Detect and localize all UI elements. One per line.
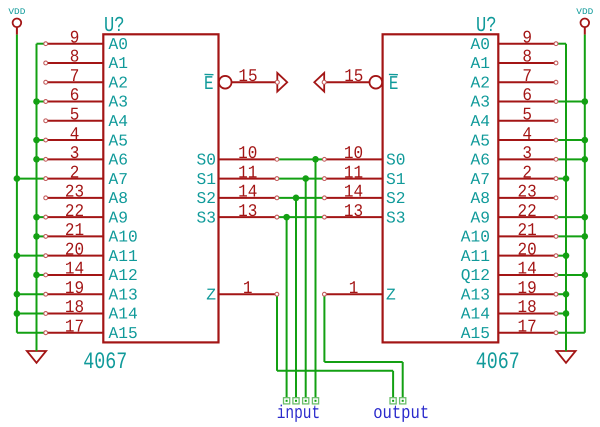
wire net S3 between chips + junction <box>277 214 325 398</box>
svg-text:1: 1 <box>243 279 253 299</box>
svg-text:5: 5 <box>70 105 80 125</box>
U1 pin 21 (A10) left <box>44 221 138 247</box>
U2 pin 13 (S3) right <box>323 202 406 228</box>
U2 pin 3 (A6) right <box>471 144 558 170</box>
U1 pin 19 (A13) left <box>44 279 138 305</box>
U1 pin 6 (A3) left <box>44 86 128 112</box>
U2 pin 20 (A11) right <box>461 240 558 266</box>
U2 pin 15 (E enable, inverted) right <box>324 67 398 95</box>
U2 pin 2 (A7) right <box>471 163 558 189</box>
svg-text:A15: A15 <box>109 324 138 343</box>
wire A6 to VDD bus (right) + junction <box>556 156 588 163</box>
svg-text:A5: A5 <box>471 131 491 150</box>
svg-text:3: 3 <box>70 144 80 164</box>
svg-text:VDD: VDD <box>8 7 25 17</box>
wire A6 to GND bus (left) + junction <box>33 156 46 163</box>
svg-text:A8: A8 <box>471 189 491 208</box>
svg-text:S1: S1 <box>197 170 217 189</box>
svg-text:17: 17 <box>518 317 537 337</box>
svg-text:4: 4 <box>522 125 532 145</box>
U1 pin 3 (A6) left <box>44 144 128 170</box>
svg-text:A4: A4 <box>109 112 129 131</box>
svg-text:15: 15 <box>344 67 363 87</box>
svg-text:14: 14 <box>238 183 257 203</box>
U1 pin 15 (E enable, inverted) left <box>204 67 277 95</box>
svg-text:10: 10 <box>344 144 363 164</box>
svg-text:A6: A6 <box>109 151 129 170</box>
svg-text:S0: S0 <box>197 151 217 170</box>
svg-text:S2: S2 <box>197 189 217 208</box>
svg-text:A13: A13 <box>461 285 490 304</box>
svg-text:5: 5 <box>522 105 532 125</box>
U1 pin 18 (A14) left <box>44 298 138 324</box>
U2 pin 8 (A1) right <box>471 48 558 74</box>
svg-text:Z: Z <box>206 285 216 304</box>
svg-text:14: 14 <box>65 260 84 280</box>
svg-text:18: 18 <box>518 298 537 318</box>
U2 pin 21 (A10) right <box>461 221 558 247</box>
wire A14 to GND bus (right) + junction <box>556 310 569 317</box>
wire A3 to VDD bus (right) + junction <box>556 98 588 105</box>
svg-text:19: 19 <box>518 279 537 299</box>
svg-text:S3: S3 <box>197 208 217 227</box>
svg-text:A8: A8 <box>109 189 129 208</box>
U1 pin 20 (A11) left <box>44 240 138 266</box>
svg-text:14: 14 <box>344 183 363 203</box>
svg-text:A10: A10 <box>461 228 490 247</box>
ground symbol (left) <box>27 351 46 363</box>
svg-text:A13: A13 <box>109 285 138 304</box>
op chip U2 body (right 4067) <box>383 34 499 342</box>
U2 pin 4 (A5) right <box>471 125 558 151</box>
svg-text:20: 20 <box>518 240 537 260</box>
U2 pin 19 (A13) right <box>461 279 558 305</box>
node input wire end 4 <box>284 398 290 404</box>
svg-text:4067: 4067 <box>476 349 520 376</box>
svg-text:2: 2 <box>70 163 80 183</box>
U1 pin 9 (A0) left <box>44 28 128 54</box>
wire GND bus (right, vertical) <box>556 44 566 352</box>
svg-text:A11: A11 <box>109 247 138 266</box>
svg-text:E: E <box>204 73 214 95</box>
U1 pin 10 (S0) left <box>197 144 279 170</box>
svg-text:23: 23 <box>65 183 84 203</box>
wire A9 to GND bus (left) + junction <box>33 214 46 221</box>
wire A10 to GND bus (left) + junction <box>33 233 46 240</box>
wire A5 to GND bus (left) + junction <box>33 137 46 144</box>
label "output" <box>373 403 429 424</box>
value 4067 (left) <box>83 349 127 376</box>
wire net Z (left chip) to output <box>277 294 393 398</box>
U1 pin 22 (A9) left <box>44 202 128 228</box>
svg-text:VDD: VDD <box>576 7 593 17</box>
unconnected arrow (left E wire end) <box>275 73 287 92</box>
svg-text:7: 7 <box>70 67 80 87</box>
svg-text:E: E <box>389 73 399 95</box>
U2 pin 18 (A14) right <box>461 298 558 324</box>
svg-text:6: 6 <box>70 86 80 106</box>
svg-text:A15: A15 <box>461 324 490 343</box>
svg-text:15: 15 <box>238 67 257 87</box>
svg-text:A3: A3 <box>109 93 129 112</box>
U1 pin 4 (A5) left <box>44 125 128 151</box>
svg-text:18: 18 <box>65 298 84 318</box>
svg-text:10: 10 <box>238 144 257 164</box>
label "input" <box>277 403 321 424</box>
wire A7 to GND bus (right) + junction <box>556 175 569 182</box>
svg-text:A2: A2 <box>471 73 491 92</box>
svg-text:A5: A5 <box>109 131 129 150</box>
svg-text:1: 1 <box>349 279 359 299</box>
svg-text:11: 11 <box>344 163 363 183</box>
svg-text:11: 11 <box>238 163 257 183</box>
svg-text:4: 4 <box>70 125 80 145</box>
U2 pin 14 (Q12) right <box>461 260 558 286</box>
U2 pin 23 (A8) right <box>471 183 558 209</box>
svg-text:A7: A7 <box>471 170 491 189</box>
svg-text:A1: A1 <box>471 54 491 73</box>
svg-text:21: 21 <box>65 221 84 241</box>
U1 pin 23 (A8) left <box>44 183 128 209</box>
svg-text:6: 6 <box>522 86 532 106</box>
power symbol VDD (VDD-right) <box>576 7 593 35</box>
U1 pin 7 (A2) left <box>44 67 128 93</box>
svg-text:A3: A3 <box>471 93 491 112</box>
U1 pin 14 (A12) left <box>44 260 138 286</box>
svg-text:2: 2 <box>522 163 532 183</box>
svg-text:4067: 4067 <box>83 349 127 376</box>
svg-text:A0: A0 <box>471 35 491 54</box>
svg-text:A7: A7 <box>109 170 129 189</box>
node input wire end 2 <box>303 398 309 404</box>
svg-text:9: 9 <box>522 28 532 48</box>
reference U? (left) <box>104 14 125 38</box>
svg-text:input: input <box>277 403 321 424</box>
U1 pin 11 (S1) left <box>197 163 279 189</box>
svg-text:13: 13 <box>344 202 363 222</box>
svg-text:A9: A9 <box>109 208 129 227</box>
svg-text:A14: A14 <box>109 305 138 324</box>
svg-text:22: 22 <box>518 202 537 222</box>
U1 pin 13 (S3) left <box>197 202 279 228</box>
svg-text:3: 3 <box>522 144 532 164</box>
svg-text:output: output <box>373 403 429 424</box>
node input wire end 1 <box>312 398 318 404</box>
U1 pin 8 (A1) left <box>44 48 128 74</box>
svg-text:14: 14 <box>518 260 537 280</box>
op chip U1 body (left 4067) <box>103 34 218 342</box>
svg-text:Q12: Q12 <box>461 266 490 285</box>
U2 pin 9 (A0) right <box>471 28 558 54</box>
svg-text:23: 23 <box>518 183 537 203</box>
svg-text:Z: Z <box>386 285 396 304</box>
svg-text:17: 17 <box>65 317 84 337</box>
node output wire end 2 <box>400 398 406 404</box>
svg-text:A0: A0 <box>109 35 129 54</box>
svg-text:A6: A6 <box>471 151 491 170</box>
wire VDD bus (left, vertical) <box>17 35 46 333</box>
value 4067 (right) <box>476 349 520 376</box>
node output wire end 1 <box>390 398 396 404</box>
U1 pin 2 (A7) left <box>44 163 128 189</box>
wire A9 to VDD bus (right) + junction <box>556 214 588 221</box>
U2 pin 10 (S0) right <box>323 144 406 170</box>
svg-text:A2: A2 <box>109 73 129 92</box>
wire A3 to GND bus (left) + junction <box>33 98 46 105</box>
U2 pin 14 (S2) right <box>323 183 406 209</box>
U2 pin 5 (A4) right <box>471 105 558 131</box>
svg-text:8: 8 <box>522 48 532 68</box>
svg-text:S0: S0 <box>386 151 406 170</box>
wire net S1 between chips + junction <box>277 175 325 398</box>
svg-text:19: 19 <box>65 279 84 299</box>
U1 pin 17 (A15) left <box>44 317 138 343</box>
ground symbol (right) <box>556 351 575 363</box>
U2 pin 7 (A2) right <box>471 67 558 93</box>
power symbol VDD (VDD-left) <box>8 7 25 35</box>
wire A7 to VDD bus (left) + junction <box>14 175 46 182</box>
wire A12 to VDD bus (right) + junction <box>556 272 588 279</box>
svg-text:8: 8 <box>70 48 80 68</box>
wire A14 to VDD bus (left) + junction <box>14 310 46 317</box>
svg-text:A14: A14 <box>461 305 490 324</box>
wire GND bus (left, vertical) <box>37 44 46 352</box>
svg-text:22: 22 <box>65 202 84 222</box>
wire A5 to VDD bus (right) + junction <box>556 137 588 144</box>
wire A11 to VDD bus (left) + junction <box>14 252 46 259</box>
svg-text:13: 13 <box>238 202 257 222</box>
wire A13 to GND bus (right) + junction <box>556 291 569 298</box>
svg-text:A4: A4 <box>471 112 491 131</box>
U1 pin 5 (A4) left <box>44 105 128 131</box>
U2 pin 22 (A9) right <box>471 202 558 228</box>
unconnected arrow (right E wire end) <box>314 73 326 92</box>
svg-text:20: 20 <box>65 240 84 260</box>
U1 pin 14 (S2) left <box>197 183 279 209</box>
svg-text:A9: A9 <box>471 208 491 227</box>
svg-text:21: 21 <box>518 221 537 241</box>
U2 pin 1 (Z) right <box>323 279 396 305</box>
svg-text:S2: S2 <box>386 189 406 208</box>
svg-text:A12: A12 <box>109 266 138 285</box>
wire net Z (right chip) to output <box>324 294 402 398</box>
wire net S2 between chips + junction <box>277 195 325 398</box>
svg-text:S1: S1 <box>386 170 406 189</box>
wire A10 to VDD bus (right) + junction <box>556 233 588 240</box>
U2 pin 11 (S1) right <box>323 163 406 189</box>
svg-text:A11: A11 <box>461 247 490 266</box>
svg-text:7: 7 <box>522 67 532 87</box>
wire A11 to GND bus (right) + junction <box>556 252 569 259</box>
U1 pin 1 (Z) left <box>206 279 279 305</box>
node input wire end 3 <box>293 398 299 404</box>
wire VDD bus (right, vertical) <box>556 35 585 333</box>
svg-text:S3: S3 <box>386 208 406 227</box>
wire A12 to GND bus (left) + junction <box>33 272 46 279</box>
svg-text:9: 9 <box>70 28 80 48</box>
wire net S0 between chips + junction <box>277 156 325 398</box>
U2 pin 6 (A3) right <box>471 86 558 112</box>
reference U? (right) <box>476 14 497 38</box>
U2 pin 17 (A15) right <box>461 317 558 343</box>
svg-text:A10: A10 <box>109 228 138 247</box>
svg-text:A1: A1 <box>109 54 129 73</box>
wire A13 to VDD bus (left) + junction <box>14 291 46 298</box>
